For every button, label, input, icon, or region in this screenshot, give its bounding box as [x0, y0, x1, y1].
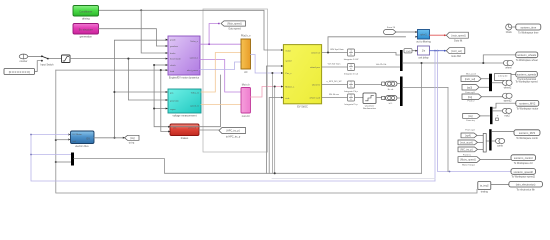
- constant vector block: [4, 69, 35, 75]
- svg-text:Tetha_m: Tetha_m: [191, 92, 200, 95]
- svg-text:[Mctrc_speed]: [Mctrc_speed]: [460, 159, 475, 162]
- wire tag C to oval speed2: [482, 96, 504, 98]
- svg-text:regen: regen: [170, 108, 176, 111]
- svg-text:From 2: From 2: [468, 100, 476, 103]
- demux box x dot: [495, 74, 512, 81]
- svg-text:speed_e: speed_e: [190, 58, 199, 60]
- svg-text:From trc: From trc: [463, 153, 472, 156]
- svg-text:Whl Spd Gain: Whl Spd Gain: [330, 49, 344, 51]
- svg-text:Tetha_e: Tetha_e: [190, 40, 199, 43]
- wire pair3 to mux2: [397, 83, 400, 85]
- input arrows blue cylinder: [68, 134, 70, 136]
- to workspace speeds R2: [515, 71, 538, 83]
- wire saturation output to purple input 4: [70, 58, 167, 60]
- mux2: [400, 77, 403, 107]
- wire mux6 to oval comb: [492, 140, 495, 142]
- svg-text:volt: volt: [73, 140, 77, 143]
- mux3: [489, 74, 492, 92]
- wire mux5 up to workspace R3: [493, 103, 516, 108]
- violet wire purple out1 to orange PI and goto tag: [200, 43, 241, 45]
- svg-text:driving: driving: [82, 16, 90, 20]
- svg-text:mot2: mot2: [504, 114, 510, 117]
- integrator row1: [344, 49, 359, 61]
- input arrows red block: [168, 126, 170, 133]
- svg-text:PI(s) b_e: PI(s) b_e: [241, 35, 251, 38]
- svg-text:Conditioner: Conditioner: [79, 9, 92, 13]
- svg-text:Goto speed: Goto speed: [228, 28, 241, 31]
- gray wire into mux6 input2: [56, 161, 71, 163]
- svg-text:wheel pos: wheel pos: [310, 67, 321, 69]
- svg-text:speed: speed: [285, 61, 292, 63]
- svg-text:To Workspace speed2: To Workspace speed2: [511, 176, 535, 179]
- to workspace control R5: [511, 155, 536, 165]
- svg-text:To electronics file: To electronics file: [516, 188, 535, 191]
- ladder feed to cyan in1: [114, 91, 167, 93]
- svg-text:x dot y dot: x dot y dot: [498, 74, 508, 77]
- gray vertical x=421 from mux1 wire down to bottom line: [421, 63, 423, 173]
- svg-text:wheel s pd: wheel s pd: [310, 97, 321, 99]
- svg-text:wheel2: wheel2: [504, 86, 512, 89]
- svg-text:[0 0 0 0 0 0 0 0]: [0 0 0 0 0 0 0 0]: [9, 70, 30, 74]
- wire tag H to workspace R5: [480, 159, 510, 161]
- blue wire PI out down to yellow in3: [251, 55, 284, 74]
- wire mux6 up to workspace R4: [492, 131, 514, 133]
- svg-text:DC Motor: DC Motor: [73, 133, 83, 136]
- lavender tee to mux input1: [31, 154, 71, 156]
- long vertical distribution wire x=54.5: [56, 70, 477, 193]
- svg-text:Ev·structure: Ev·structure: [79, 27, 94, 31]
- junction on green wire: [140, 9, 142, 11]
- svg-text:ta_tmp2: ta_tmp2: [480, 185, 489, 188]
- gray vertical x=448 from mux2 wire down: [447, 88, 449, 172]
- wire clock to workspace time: [512, 26, 516, 28]
- integrator row3: [344, 81, 359, 93]
- clock: [506, 24, 513, 34]
- manual switch: [40, 55, 54, 66]
- subsystem EV model (yellow): [283, 45, 321, 109]
- goto tag T1 mctr_speed2: [446, 32, 468, 42]
- lavender feedback vertical x=437.5 to bottom right: [438, 51, 512, 172]
- svg-text:sonterm_wheels: sonterm_wheels: [517, 53, 537, 57]
- orange wire cyan out2 routed to pink in2: [201, 104, 241, 106]
- svg-text:to HPC_trc_p: to HPC_trc_p: [226, 135, 241, 138]
- to workspace speed2 R6: [511, 169, 536, 179]
- saturation block: [62, 55, 71, 63]
- svg-text:brakes: brakes: [181, 137, 189, 140]
- subsystem Generator (magenta): [73, 24, 99, 35]
- wire quantizer to pair4: [376, 97, 382, 99]
- gain pair row4: [382, 96, 397, 106]
- svg-text:speed_m: speed_m: [190, 106, 199, 108]
- wide from tag H Mctrc_speed: [458, 157, 480, 167]
- motor controller (pink): [241, 83, 251, 118]
- quantizer block: [363, 93, 377, 110]
- svg-text:sonterm_control: sonterm_control: [514, 156, 533, 160]
- goto tag Mctr_speed: [221, 21, 246, 31]
- svg-text:to trq: to trq: [129, 142, 135, 145]
- mux1: [400, 50, 403, 71]
- wire box to workspace speeds R2: [511, 74, 515, 76]
- mux5: [490, 107, 493, 124]
- svg-text:Goto filt2: Goto filt2: [451, 55, 461, 58]
- from tag A mctr_vel: [461, 76, 481, 82]
- svg-text:Goto filt: Goto filt: [454, 40, 463, 43]
- violet wire purple out2 routed to pink block in1: [200, 60, 241, 93]
- svg-text:[trq]: [trq]: [468, 115, 472, 118]
- svg-text:u_SP3_NO_SP: u_SP3_NO_SP: [326, 81, 342, 83]
- wire yellow out2 to integrator row2: [322, 66, 347, 68]
- wire yellow out3 to integrator row3: [322, 84, 347, 86]
- from tag B sp3: [462, 85, 479, 94]
- svg-text:generation: generation: [80, 34, 93, 38]
- scope oval comb: [495, 139, 504, 148]
- svg-text:[trq]: [trq]: [130, 137, 134, 140]
- wire mux5 to oval mot2: [493, 110, 503, 112]
- mux6: [489, 129, 491, 150]
- svg-text:Input Switch: Input Switch: [40, 64, 54, 67]
- svg-text:unit delay: unit delay: [418, 56, 429, 59]
- wire From20 to filter block: [396, 31, 416, 33]
- red wire filter to goto tag T1: [430, 34, 446, 36]
- svg-text:counter: counter: [20, 60, 28, 63]
- svg-text:+: +: [497, 114, 499, 118]
- orange wire cyan out1 routed up to PI input2: [201, 53, 241, 93]
- svg-text:From trq: From trq: [466, 119, 475, 122]
- svg-text:elect_press: elect_press: [187, 69, 199, 72]
- svg-text:grade: grade: [170, 39, 176, 42]
- svg-text:Mct_accel: Mct_accel: [466, 73, 476, 76]
- svg-text:Integrate Ph p: Integrate Ph p: [344, 90, 359, 93]
- PI controller (orange): [241, 35, 251, 75]
- scope oval mot2: [502, 108, 511, 117]
- integrator row2: [344, 64, 359, 76]
- annotation box around controller area: [203, 9, 268, 152]
- wires tags EFG to selector: [477, 134, 483, 136]
- goto tag T2 mctr_vel: [446, 48, 465, 58]
- ladder vertical x=161 to red in2: [161, 70, 169, 131]
- filter block (blue): [416, 30, 431, 44]
- svg-text:wheel m: wheel m: [312, 84, 320, 86]
- svg-text:b D: b D: [389, 103, 393, 105]
- svg-text:Pos_s: Pos_s: [285, 73, 292, 75]
- input port arrows purple: [166, 39, 168, 72]
- wire row2 to mux1: [355, 66, 400, 68]
- ladder vertical x=128 to cyan in2: [128, 59, 167, 100]
- to workspace time R0: [516, 24, 541, 34]
- electric machine (blue cylinder): [71, 131, 95, 148]
- from tag G MC_tro_p: [458, 147, 478, 156]
- from tag E sp4: [461, 133, 477, 138]
- link selector to mux6: [486, 140, 489, 142]
- svg-text:To Workspace comb: To Workspace comb: [516, 137, 538, 140]
- wires tags to mux3: [481, 78, 488, 80]
- svg-text:[trq]: [trq]: [468, 96, 472, 99]
- scope oval speed2: [503, 93, 513, 102]
- wire ta_tmp2 to sim block R7: [491, 184, 509, 186]
- svg-text:out to filtering: out to filtering: [416, 40, 431, 43]
- svg-text:Integrate Pt p: Integrate Pt p: [344, 103, 358, 106]
- svg-text:[mctr_speed]: [mctr_speed]: [452, 34, 466, 37]
- ladder vertical x=141 from green wire to purple in3: [141, 10, 167, 53]
- svg-text:sonterm_time: sonterm_time: [520, 25, 536, 29]
- svg-text:gearratio: gearratio: [170, 100, 179, 103]
- junction and branch up to workspace wheels R1: [483, 55, 515, 63]
- svg-text:EV: EV: [87, 137, 91, 141]
- subsystem brake (red): [170, 124, 199, 140]
- svg-text:wheel: wheel: [505, 67, 512, 70]
- wire cylinder out to goto tag: [94, 137, 124, 139]
- ladder vertical x=114.4 with feed to purple in1: [114, 40, 168, 138]
- selector narrow block: [483, 134, 486, 153]
- svg-text:Mot.s.b: Mot.s.b: [242, 83, 251, 86]
- wire red out to HPC goto tag: [199, 129, 219, 131]
- from tag F mot_accel: [458, 140, 478, 145]
- wire row4 to quantizer: [355, 97, 363, 99]
- wire switch to saturation: [49, 58, 61, 60]
- subsystem vehicle dynamics (purple): [168, 36, 200, 80]
- svg-text:sonterm_MV3: sonterm_MV3: [519, 131, 536, 135]
- svg-text:speed2: speed2: [504, 99, 513, 102]
- gray wire into cylinder in2 from x=54.5 vertical: [56, 139, 69, 141]
- svg-text:From sp4: From sp4: [465, 128, 475, 131]
- svg-text:wheel rot: wheel rot: [311, 51, 320, 54]
- svg-text:fixed mode: fixed mode: [170, 59, 181, 61]
- svg-text:ctrl: ctrl: [244, 71, 248, 74]
- goto tag trq: [125, 135, 140, 144]
- svg-text:(sim_electronics): (sim_electronics): [516, 183, 536, 187]
- svg-text:Ev sb: Ev sb: [388, 89, 394, 91]
- svg-text:Nonlinearities: Nonlinearities: [363, 107, 377, 110]
- wire mux3 to oval wheel2: [492, 82, 502, 84]
- svg-text:1.5/8: 1.5/8: [406, 51, 412, 53]
- svg-text:[Mctr_speed]: [Mctr_speed]: [228, 23, 242, 26]
- svg-text:comb: comb: [497, 145, 504, 148]
- svg-text:electric drive: electric drive: [75, 145, 89, 148]
- svg-text:sonterm_speeds: sonterm_speeds: [517, 73, 537, 77]
- lavender feedback left loop: [31, 135, 435, 182]
- svg-text:brake: brake: [170, 52, 176, 55]
- gray feedback route into red in1: [170, 75, 221, 127]
- svg-text:Engine/EV motor dynamics: Engine/EV motor dynamics: [169, 77, 200, 80]
- to workspace values R3: [516, 101, 539, 111]
- to workspace wheels R1: [516, 52, 538, 62]
- svg-text:To Workspace ctrl: To Workspace ctrl: [514, 162, 533, 165]
- svg-text:[mctr_vel]: [mctr_vel]: [465, 78, 476, 81]
- svg-text:clutch: clutch: [170, 64, 176, 67]
- small block ta_tmp2: [478, 182, 491, 194]
- source oval counter: [19, 54, 28, 63]
- wire oval to switch: [28, 55, 41, 57]
- scope oval wheel: [503, 60, 513, 69]
- lavender feedback vertical x=435: [434, 51, 436, 181]
- scope oval wheel2: [503, 80, 513, 89]
- svg-text:gearbox: gearbox: [170, 45, 179, 48]
- svg-text:Integrate D LW: Integrate D LW: [344, 58, 359, 61]
- svg-text:From sp3: From sp3: [465, 91, 475, 94]
- svg-text:testing: testing: [481, 191, 489, 194]
- From 20 tag oval: [384, 26, 396, 35]
- wire: magenta output to purple input 1: [99, 29, 168, 46]
- red wire pink out to yellow in4: [251, 87, 284, 98]
- subsystem Throttle (green): [73, 6, 99, 17]
- svg-text:[mot_accel]: [mot_accel]: [460, 141, 473, 144]
- svg-text:[sp3]: [sp3]: [467, 86, 473, 89]
- wire mux output long bottom route: [74, 159, 422, 174]
- gray wires into yellow in1 in2 in5: [267, 66, 284, 173]
- svg-text:sonterm_MV2: sonterm_MV2: [519, 102, 536, 106]
- wire tag D to mux5: [481, 115, 490, 117]
- junction dots ladder: [113, 91, 115, 93]
- mux bottom-left: [71, 153, 74, 166]
- integrator row4: [344, 94, 358, 106]
- from tag C trq2: [462, 94, 482, 100]
- svg-text:[MC_tro_p]: [MC_tro_p]: [461, 148, 473, 151]
- svg-text:To Workspace motor: To Workspace motor: [516, 107, 538, 110]
- wire yellow out1 to integrator row1 and up to filter: [322, 52, 347, 54]
- lavender wire purple out3 to PI input3: [200, 62, 241, 70]
- input port arrows cyan: [166, 91, 168, 110]
- violet branch up to goto speed tag: [209, 24, 218, 45]
- svg-text:EV SbSC: EV SbSC: [297, 106, 308, 109]
- svg-text:sonterm_speed2: sonterm_speed2: [514, 170, 534, 174]
- svg-text:To Workspace speed: To Workspace speed: [515, 81, 538, 84]
- svg-text:To Workspace wheel: To Workspace wheel: [516, 59, 538, 62]
- ladder horizontal to purple in6: [56, 69, 167, 71]
- svg-text:mot ctrl: mot ctrl: [242, 115, 250, 118]
- wire mux1 output long to scope oval: [403, 62, 504, 64]
- svg-text:Veh Ph Kb: Veh Ph Kb: [376, 64, 387, 66]
- svg-text:voltage measurement: voltage measurement: [172, 115, 196, 118]
- svg-text:motor: motor: [285, 49, 291, 52]
- wire pair4 to mux2: [397, 97, 400, 99]
- from tag D trq3: [463, 114, 481, 122]
- svg-text:Clock: Clock: [506, 31, 513, 34]
- svg-text:[sp4]: [sp4]: [465, 134, 471, 137]
- subsystem EV motor (cyan): [168, 89, 201, 118]
- wire yellow out4 to integrator row4: [322, 97, 347, 99]
- tiny constant feeding transfer fcn: [404, 49, 412, 53]
- svg-text:[mctr_vel]: [mctr_vel]: [451, 50, 462, 53]
- gain pair row3: [382, 81, 397, 91]
- wire row3 to gain pair: [355, 84, 382, 86]
- wire constant to switch lower contact: [35, 61, 42, 72]
- lavender wire into cylinder in1: [31, 134, 69, 136]
- svg-text:Motor Torque: Motor Torque: [462, 163, 476, 166]
- transfer fcn block (white): [418, 46, 430, 59]
- svg-text:To Workspace time: To Workspace time: [518, 31, 539, 34]
- svg-text:s/s+1: s/s+1: [420, 32, 427, 36]
- feedback verticals from yellow input wires down to bottom line: [271, 73, 273, 173]
- svg-text:Motion_s: Motion_s: [285, 85, 295, 88]
- sim electronics block R7: [509, 182, 543, 192]
- svg-text:From 20: From 20: [387, 26, 396, 29]
- svg-text:Veh Sol Gain: Veh Sol Gain: [328, 64, 342, 66]
- wire: green source output running right: [99, 10, 284, 50]
- svg-text:Wh Sb ms: Wh Sb ms: [329, 94, 340, 96]
- input arrows yellow: [281, 49, 283, 99]
- goto tag HPC_trc_p: [219, 128, 246, 139]
- blue wire delay to goto tag T2: [430, 50, 446, 52]
- svg-text:[HPC_trc_p]: [HPC_trc_p]: [226, 130, 239, 133]
- wire mux2 output right: [403, 87, 448, 89]
- wire row1 to mux1: [355, 53, 400, 56]
- to workspace MV2 R4: [514, 130, 540, 140]
- faint feedback line y=178.4: [272, 177, 435, 179]
- ladder vertical x=154 to red in1 and cyan in3: [154, 65, 168, 127]
- svg-text:Integrate D sol: Integrate D sol: [344, 72, 359, 75]
- ladder horizontal y=65 to purple in5: [154, 64, 167, 66]
